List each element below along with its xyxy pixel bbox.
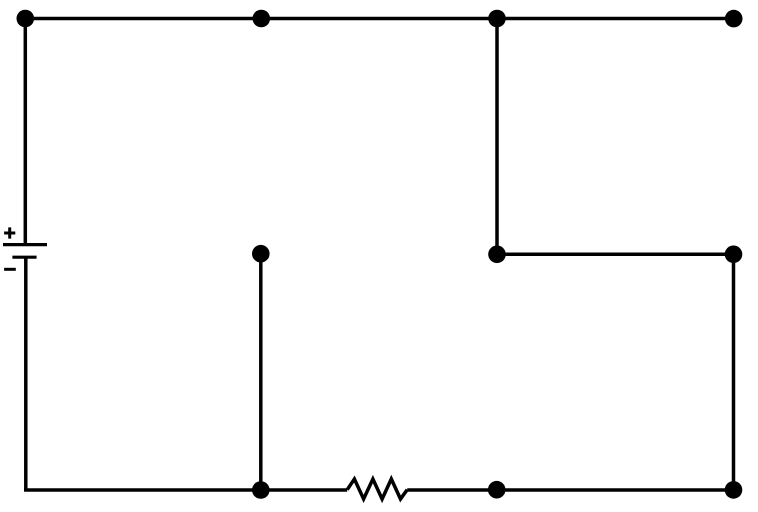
battery B1 positive plate (long)	[3, 243, 47, 246]
node: top bus junction above stub	[252, 10, 270, 28]
wire: bottom bus left segment from left corner to resistor	[24, 488, 347, 492]
battery B1 negative plate (short)	[12, 256, 36, 259]
node: top-left junction	[17, 10, 35, 28]
node: open stub terminal	[252, 245, 270, 263]
battery B1 plus label	[4, 227, 15, 238]
node: bottom bus junction at stub	[252, 481, 270, 499]
node: middle bus left junction	[488, 246, 506, 264]
node: bottom-right corner junction	[725, 481, 743, 499]
wire: right vertical from middle bus down to bottom bus	[732, 254, 736, 490]
node: top-right endpoint	[725, 10, 743, 28]
node: top bus junction at vertical branch	[488, 10, 506, 28]
wire: bottom bus right segment from resistor to bottom-right corner	[407, 488, 733, 492]
battery B1 minus label	[4, 268, 16, 271]
wire: top bus from battery + to top-right endpoint	[25, 17, 734, 21]
resistor R1 zigzag	[347, 479, 407, 499]
wire: middle horizontal bus	[497, 253, 734, 257]
node: middle bus right corner junction	[725, 246, 743, 264]
wire: left vertical from battery negative plate down to bottom bus	[24, 257, 28, 490]
wire: vertical branch from top bus node down to middle bus	[495, 19, 499, 255]
wire: left vertical from top bus down to battery positive plate	[24, 19, 28, 245]
wire: middle vertical stub from open node down to bottom bus	[259, 254, 263, 490]
node: bottom bus junction right of resistor	[488, 481, 506, 499]
